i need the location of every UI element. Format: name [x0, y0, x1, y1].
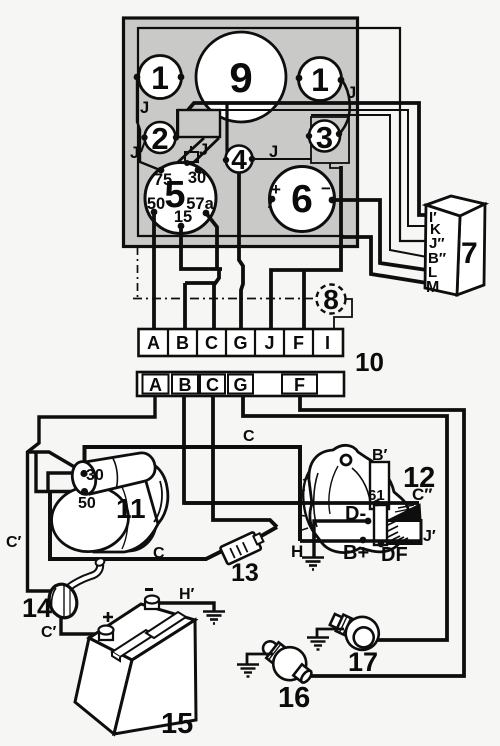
- svg-text:J: J: [130, 144, 139, 162]
- gauge 1 right: [299, 58, 342, 101]
- gauge 4: [226, 146, 253, 173]
- ignition switch gauge 5: [145, 163, 216, 234]
- wire C loop: starter 30 to alternator: [85, 447, 301, 541]
- wire strip2 C to cable stub: [213, 396, 277, 527]
- wire 61 line overlay: [184, 501, 419, 505]
- terminal box B': [370, 462, 389, 509]
- svg-text:6: 6: [291, 178, 313, 221]
- svg-text:3: 3: [316, 120, 333, 155]
- connector 13 plug: [220, 530, 266, 565]
- svg-text:50: 50: [78, 495, 96, 512]
- coil hatching: [384, 521, 408, 543]
- svg-text:7: 7: [461, 237, 478, 270]
- dash-dot datum line horizontal through lamp 8: [133, 298, 316, 300]
- svg-text:G: G: [233, 333, 247, 353]
- field coil J' box: [381, 521, 421, 544]
- wire alternator bottom line: [300, 539, 421, 543]
- ground symbol at 16: [237, 665, 259, 677]
- gauge 6 fuel: [270, 167, 335, 232]
- svg-text:1: 1: [311, 62, 329, 98]
- alternator 12 body: [309, 445, 409, 552]
- svg-text:H′: H′: [179, 586, 195, 603]
- instrument panel gray box: [124, 18, 358, 247]
- battery vent caps: [112, 612, 186, 661]
- wire D- to ground line: [314, 521, 368, 541]
- svg-text:C′: C′: [41, 624, 57, 641]
- alternator detail: [352, 468, 371, 509]
- wire gauge2 left stub: [141, 141, 145, 152]
- wire curve gauge1R to gauge3: [339, 80, 350, 134]
- wire connector 13 upper lead: [254, 527, 277, 540]
- ground symbol at 17: [307, 638, 329, 650]
- battery minus post: [145, 596, 159, 610]
- wire 15 down: [181, 226, 222, 269]
- wire C loop vertical overlay: [298, 447, 302, 541]
- svg-text:I: I: [325, 333, 330, 353]
- wire to starter terminal 30: [28, 452, 84, 472]
- svg-text:B: B: [176, 333, 189, 353]
- wire strip2 F to sender 16: [300, 396, 464, 676]
- svg-text:J: J: [269, 143, 278, 161]
- wire to strip cell C: [214, 269, 219, 329]
- wire strip2 B to alternator 61: [184, 396, 419, 503]
- wire gauge4 to strip cell G: [239, 172, 243, 329]
- svg-text:B+: B+: [343, 542, 369, 564]
- svg-text:30: 30: [86, 467, 104, 484]
- lamp 8 hook wire to strip cell I: [334, 299, 352, 329]
- svg-text:+: +: [271, 180, 281, 199]
- svg-text:11: 11: [116, 493, 146, 524]
- svg-text:14: 14: [22, 593, 52, 623]
- unit 7 relay box 3d: [425, 196, 485, 295]
- svg-text:D-: D-: [345, 503, 366, 525]
- svg-text:J: J: [347, 84, 356, 102]
- svg-text:C: C: [206, 375, 219, 395]
- inner border wire with extension to J'' pin of unit 7: [138, 28, 427, 241]
- svg-text:J: J: [140, 99, 149, 117]
- starter main cylinder: [92, 478, 158, 552]
- wire B'' : thin line to unit 7 pin B'': [311, 115, 427, 257]
- starter bell housing: [105, 462, 168, 551]
- svg-text:F: F: [293, 333, 304, 353]
- svg-text:4: 4: [231, 144, 247, 175]
- lamp 8 dashed circle: [317, 285, 346, 314]
- connector strip 10 upper: [139, 329, 344, 356]
- svg-text:17: 17: [348, 647, 378, 677]
- wire strip2 A to starter 50: [28, 396, 156, 591]
- battery 15: [75, 604, 196, 734]
- svg-text:15: 15: [174, 208, 192, 226]
- ignition connector block: [178, 110, 220, 137]
- svg-text:1: 1: [151, 60, 169, 96]
- battery polarity marks: [103, 612, 113, 622]
- svg-text:16: 16: [278, 682, 310, 714]
- svg-text:50: 50: [147, 195, 165, 213]
- connector strip 10 lower: [137, 372, 344, 396]
- wire 57a down: [206, 213, 217, 269]
- svg-text:C′: C′: [6, 534, 22, 551]
- svg-text:15: 15: [161, 708, 193, 740]
- svg-text:C: C: [205, 333, 218, 353]
- gauge 9 speedometer: [196, 32, 286, 122]
- svg-text:75: 75: [154, 171, 172, 189]
- temperature sender 17: [325, 604, 384, 655]
- svg-text:30: 30: [188, 169, 206, 187]
- terminal pin dots: [80, 74, 384, 548]
- oil pressure sender 16: [254, 631, 319, 692]
- wire L : from gauge 6 minus to unit 7 pin L: [332, 200, 427, 270]
- brush box DF: [374, 505, 387, 545]
- svg-text:G: G: [233, 375, 247, 395]
- wire 50 to strip cell A: [152, 213, 156, 329]
- svg-text:C: C: [243, 428, 255, 445]
- wire I' : thick line to unit 7 pin I': [188, 103, 427, 215]
- wire battery cable to connector 13: [50, 492, 226, 560]
- svg-text:C: C: [153, 545, 165, 562]
- wire net gauge3/gauge6/strip F,J: [271, 166, 341, 329]
- svg-text:8: 8: [323, 284, 339, 315]
- wire sender17 ground: [317, 629, 344, 637]
- wire key 14 to battery plus: [61, 617, 100, 634]
- ground symbol H': [203, 612, 225, 624]
- starter detail lines: [154, 481, 162, 522]
- svg-text:M: M: [426, 279, 439, 296]
- svg-text:DF: DF: [381, 544, 408, 566]
- wire drop to 50 line: [36, 452, 83, 492]
- wire sender16 ground: [247, 654, 273, 664]
- svg-text:J: J: [264, 333, 274, 353]
- wire bottom line overlay: [300, 539, 421, 543]
- wire H ground stub: [312, 541, 315, 557]
- ground symbol H: [302, 558, 324, 570]
- wire strip2 G to sender 17: [243, 396, 447, 640]
- key funnel to switch 5: [178, 138, 219, 165]
- svg-text:B′: B′: [372, 447, 388, 464]
- wire to strip cell B: [185, 283, 215, 329]
- key symbol on gauge 5: [185, 152, 198, 162]
- svg-text:61: 61: [368, 487, 385, 504]
- wire M branch to unit 7 pin M: [341, 237, 427, 283]
- C'' arrow head: [388, 504, 421, 520]
- starter motor 11: [48, 453, 168, 556]
- svg-text:A: A: [149, 375, 162, 395]
- alternator 12 pulley: [297, 460, 357, 549]
- svg-text:B: B: [179, 375, 192, 395]
- svg-text:−: −: [321, 179, 331, 198]
- wire K : thin line from gauge 2 top to unit 7 pin K: [177, 110, 427, 226]
- svg-text:J′: J′: [423, 528, 436, 545]
- wire block to gauge 4 left pin: [225, 104, 228, 157]
- battery plus post: [99, 626, 114, 641]
- gauge 3: [309, 121, 340, 152]
- svg-text:2: 2: [151, 121, 168, 156]
- svg-text:12: 12: [403, 462, 435, 494]
- svg-text:F: F: [294, 375, 305, 395]
- wire gauge1L left pin down to pin 75: [137, 77, 160, 170]
- gauge 3 frame: [311, 117, 349, 163]
- gauge 1 left: [139, 56, 182, 99]
- svg-text:10: 10: [355, 347, 384, 377]
- svg-text:J: J: [199, 141, 208, 159]
- svg-text:H: H: [291, 542, 303, 561]
- wire F drop to strip cell F: [302, 270, 306, 329]
- svg-text:A: A: [147, 333, 160, 353]
- wire D- overlay: [314, 521, 368, 541]
- wire gauge4 right to gauge3 frame: [252, 158, 311, 160]
- gauge 2: [145, 122, 176, 153]
- ignition key 14: [45, 557, 105, 621]
- svg-text:9: 9: [229, 54, 252, 101]
- svg-text:13: 13: [231, 559, 259, 587]
- dash-dot datum line vertical: [137, 247, 139, 299]
- wire battery minus to ground H': [159, 603, 214, 611]
- starter solenoid: [85, 453, 155, 494]
- gauge6 plus stub: [269, 199, 272, 208]
- wire bridge 30-50: [48, 473, 82, 492]
